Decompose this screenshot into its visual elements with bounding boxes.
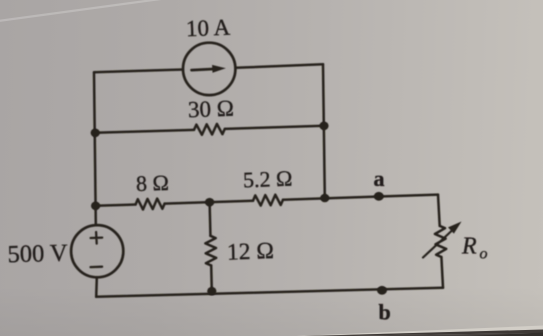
svg-text:5.2 Ω: 5.2 Ω — [243, 166, 293, 193]
svg-text:o: o — [480, 246, 488, 263]
svg-text:30 Ω: 30 Ω — [188, 96, 235, 123]
wire 12-ohm branch lower — [210, 266, 213, 292]
junction dot: middle row left — [91, 202, 100, 211]
wire bottom row — [96, 288, 443, 297]
node b dot — [377, 286, 387, 295]
svg-text:a: a — [374, 166, 385, 191]
node a dot — [374, 192, 384, 201]
current source arrowhead — [212, 65, 226, 73]
resistor 12-ohm zigzag — [205, 236, 216, 266]
wire 30-ohm row right — [225, 126, 324, 129]
wire middle row: 8-ohm to 5.2-ohm — [165, 201, 253, 204]
wire middle row: 5.2-ohm to right corner (through node a) — [283, 195, 438, 200]
wire left vertical (top-left corner down to voltage source) — [94, 72, 96, 224]
wire far-right vertical upper (corner to Ro) — [438, 195, 440, 226]
resistor Ro zigzag — [435, 226, 446, 257]
junction dot: 12-ohm bottom — [207, 287, 216, 296]
junction dot: 30-ohm row right — [319, 122, 328, 131]
voltage source V1 circle 500V — [71, 225, 123, 277]
svg-text:8 Ω: 8 Ω — [136, 170, 170, 196]
wire below voltage source — [95, 278, 98, 297]
table shadow dark line bottom-right — [304, 330, 543, 336]
wire top-right horizontal (top row, right of current source) — [236, 64, 323, 68]
Ro adjust arrow shaft — [423, 230, 453, 258]
svg-text:500 V: 500 V — [7, 240, 68, 269]
wire middle row: left end to 8-ohm — [96, 205, 136, 206]
svg-text:R: R — [461, 234, 477, 260]
svg-text:b: b — [379, 300, 391, 325]
wire 30-ohm row left — [95, 130, 194, 133]
junction dot: middle row 12-ohm top — [205, 198, 214, 207]
svg-text:10 A: 10 A — [186, 15, 231, 42]
plus sign of voltage source — [91, 232, 103, 244]
page edge highlight strip bottom-right — [296, 326, 543, 336]
junction dot: 30-ohm row left — [91, 129, 100, 138]
Ro arrowhead — [448, 222, 462, 234]
resistor R 30ohm zigzag — [194, 124, 225, 135]
junction dot: middle row right vertical — [320, 194, 329, 203]
current source I1 circle 10A — [183, 43, 235, 95]
minus sign of voltage source — [91, 266, 103, 269]
wire top-left horizontal (top row, left of current source) — [94, 70, 183, 73]
page lighting: faint diagonal crease top-left — [0, 0, 168, 21]
dark area below page edge — [314, 333, 543, 336]
current source arrow shaft — [192, 69, 216, 70]
svg-text:12 Ω: 12 Ω — [227, 238, 275, 266]
resistor 8-ohm zigzag — [136, 199, 165, 210]
resistor 5.2-ohm zigzag — [253, 195, 283, 206]
wire right-mid vertical (top-right corner down to middle row) — [323, 64, 325, 198]
darkest corner of table shadow — [470, 333, 543, 336]
wire far-right vertical lower (Ro to bottom corner) — [441, 257, 443, 288]
wire 12-ohm branch upper — [208, 202, 211, 236]
